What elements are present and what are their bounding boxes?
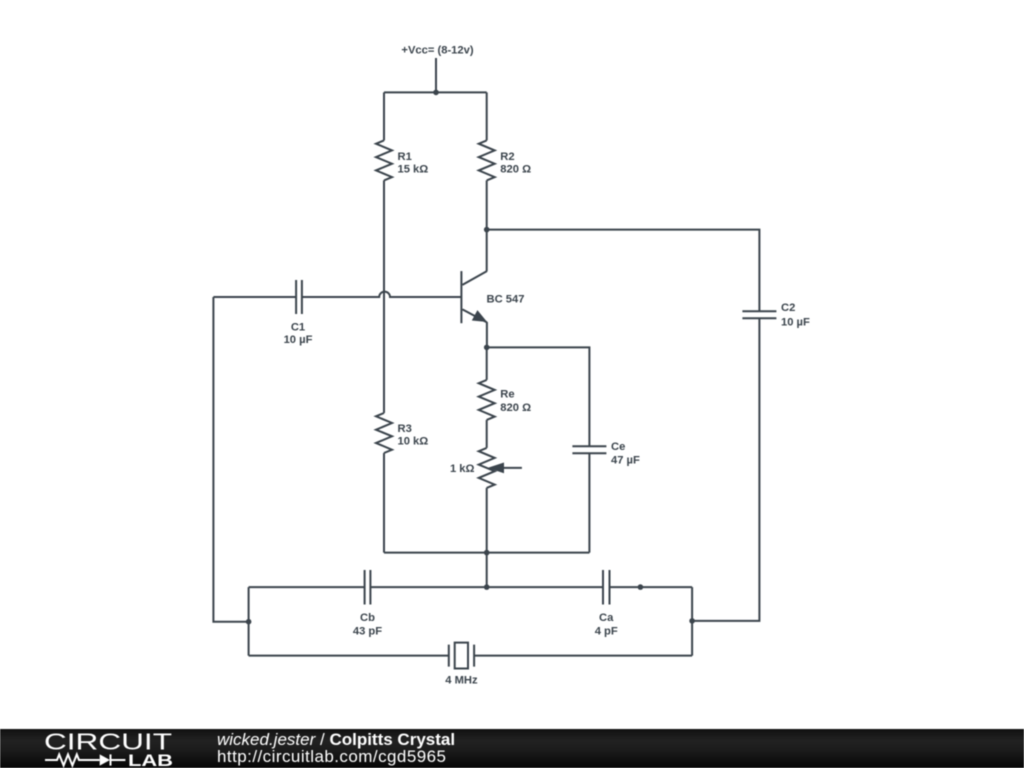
- svg-text:Ce: Ce: [611, 441, 625, 453]
- svg-text:LAB: LAB: [128, 751, 173, 768]
- resistor R2: [479, 140, 495, 180]
- wire rail connector: [486, 553, 488, 588]
- wire feedback rail right segment: [610, 586, 693, 588]
- wire Ce bottom lead: [588, 453, 590, 552]
- wire C1 to base with hop over divider: [302, 292, 462, 297]
- wire C1 left lead: [213, 296, 296, 298]
- potentiometer R4 1k: [479, 448, 495, 488]
- svg-text:C1: C1: [291, 322, 305, 334]
- svg-text:820 Ω: 820 Ω: [500, 402, 531, 414]
- node Vcc junction: [433, 90, 439, 96]
- wire R2 top lead: [486, 92, 488, 140]
- wire pot bottom lead: [486, 488, 488, 553]
- CircuitLab logo: [0, 729, 200, 768]
- capacitor Cb: [365, 570, 371, 605]
- resistor R3: [376, 413, 392, 453]
- wire R3 bottom lead: [383, 453, 385, 553]
- svg-text:15 kΩ: 15 kΩ: [398, 163, 429, 175]
- capacitor Ce: [572, 446, 606, 453]
- footer bar: [0, 729, 1024, 768]
- resistor Re: [479, 380, 495, 420]
- wire R2 bottom to collector node: [486, 180, 488, 229]
- node collector junction: [484, 227, 490, 233]
- wire left loop vertical: [248, 587, 250, 656]
- svg-text:Re: Re: [500, 388, 514, 400]
- crystal XTAL 4MHz: [449, 643, 474, 669]
- svg-text:Ca: Ca: [599, 612, 614, 624]
- svg-text:R2: R2: [500, 151, 514, 163]
- svg-text:10 µF: 10 µF: [284, 334, 313, 346]
- svg-text:10 µF: 10 µF: [781, 317, 810, 329]
- wire crystal rail right: [474, 655, 692, 657]
- wire emitter to Re: [486, 347, 488, 380]
- svg-text:R1: R1: [398, 151, 412, 163]
- svg-text:820 Ω: 820 Ω: [500, 163, 531, 175]
- wire C2 bottom to right loop: [692, 318, 759, 621]
- wire C1 branch down left side: [213, 297, 248, 622]
- svg-text:1 kΩ: 1 kΩ: [450, 463, 475, 475]
- svg-text:4 MHz: 4 MHz: [445, 675, 478, 687]
- capacitor Ca: [603, 570, 610, 605]
- svg-text:C2: C2: [781, 302, 795, 314]
- svg-text:43 pF: 43 pF: [353, 626, 382, 638]
- wire emitter rail to Ce: [487, 347, 590, 446]
- wire collector lead: [486, 230, 488, 272]
- wire ground rail: [384, 552, 589, 554]
- svg-text:BC 547: BC 547: [487, 293, 525, 305]
- svg-text:10 kΩ: 10 kΩ: [398, 436, 429, 448]
- resistor R1: [376, 140, 392, 180]
- wire collector rail to C2: [487, 230, 760, 312]
- node Ca-C2 junction: [638, 584, 644, 590]
- node ground rail junction: [484, 550, 490, 556]
- wire feedback rail middle segment: [370, 586, 603, 588]
- capacitor C1: [296, 280, 302, 314]
- node emitter junction: [484, 345, 490, 351]
- wire Re to pot: [486, 420, 488, 448]
- wire right loop vertical: [691, 587, 693, 656]
- svg-text:+Vcc= (8-12v): +Vcc= (8-12v): [401, 45, 473, 57]
- capacitor C2: [742, 311, 776, 318]
- transistor Q1 BC 547: [461, 271, 487, 323]
- svg-text:Cb: Cb: [360, 612, 375, 624]
- svg-text:R3: R3: [398, 423, 412, 435]
- node C2 branch junction: [689, 618, 695, 624]
- node C1 branch junction: [246, 619, 252, 625]
- wire Vcc lead: [435, 58, 437, 92]
- svg-text:47 µF: 47 µF: [611, 455, 640, 467]
- wire top rail: [384, 91, 487, 93]
- wire feedback rail left segment: [249, 586, 365, 588]
- wire R1 bottom to R3 top: [383, 180, 385, 413]
- node feedback rail junction: [484, 584, 490, 590]
- svg-text:4 pF: 4 pF: [595, 626, 618, 638]
- wire R1 top lead: [383, 92, 385, 140]
- wire emitter lead: [486, 322, 488, 347]
- wire crystal rail left: [249, 655, 449, 657]
